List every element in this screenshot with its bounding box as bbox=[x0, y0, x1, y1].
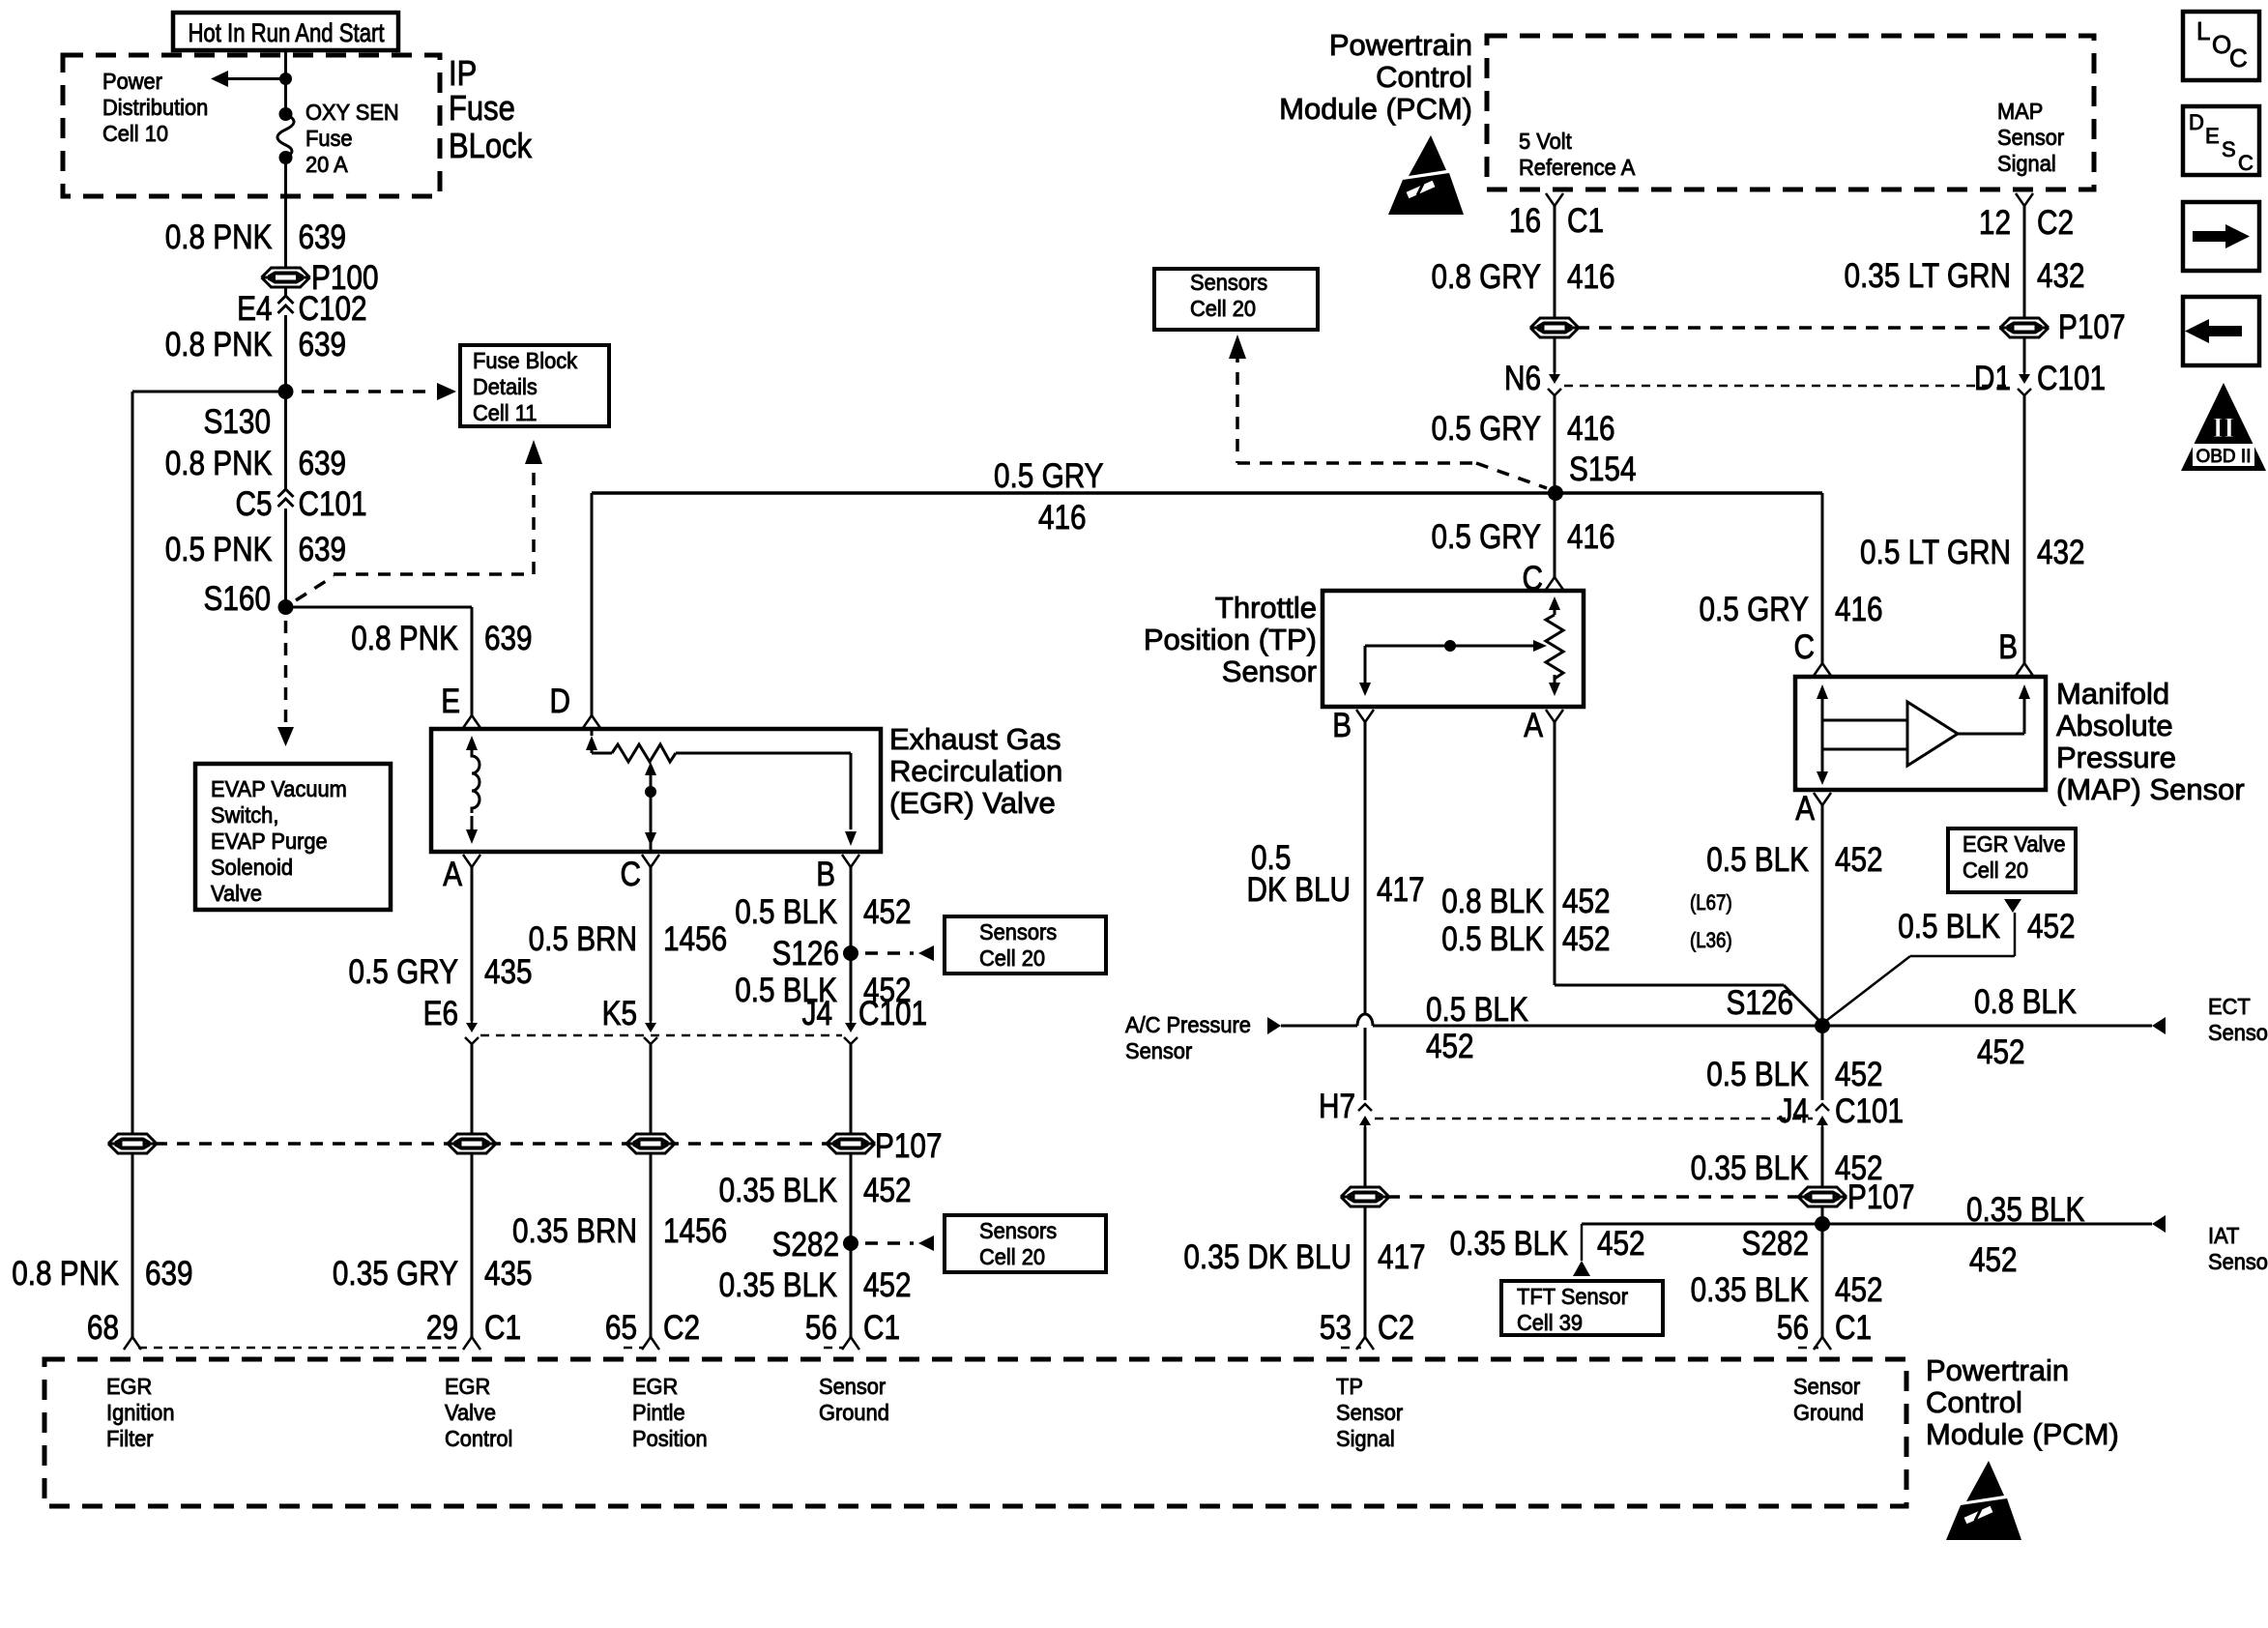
svg-text:Position: Position bbox=[632, 1426, 708, 1451]
svg-text:Fuse: Fuse bbox=[305, 126, 353, 151]
svg-text:452: 452 bbox=[1835, 1271, 1883, 1309]
svg-text:416: 416 bbox=[1567, 410, 1615, 448]
svg-text:452: 452 bbox=[1426, 1028, 1474, 1065]
svg-text:Pintle: Pintle bbox=[632, 1400, 685, 1425]
svg-text:A/C Pressure: A/C Pressure bbox=[1125, 1012, 1251, 1037]
svg-text:C101: C101 bbox=[858, 995, 927, 1032]
svg-text:Throttle: Throttle bbox=[1215, 591, 1317, 625]
svg-text:639: 639 bbox=[299, 218, 347, 256]
svg-text:Sensor: Sensor bbox=[1793, 1374, 1861, 1399]
svg-text:Control: Control bbox=[1926, 1385, 2022, 1419]
svg-text:S160: S160 bbox=[204, 580, 272, 618]
svg-text:D: D bbox=[2189, 110, 2204, 134]
svg-text:435: 435 bbox=[484, 1255, 533, 1293]
svg-text:0.8 GRY: 0.8 GRY bbox=[1432, 258, 1542, 296]
svg-text:C1: C1 bbox=[863, 1309, 900, 1347]
svg-text:S130: S130 bbox=[204, 403, 272, 441]
svg-text:TP: TP bbox=[1336, 1374, 1363, 1399]
svg-text:EGR: EGR bbox=[445, 1374, 490, 1399]
svg-text:0.35 LT GRN: 0.35 LT GRN bbox=[1845, 257, 2012, 295]
svg-text:Distribution: Distribution bbox=[102, 95, 208, 120]
svg-text:MAP: MAP bbox=[1997, 99, 2043, 124]
svg-text:452: 452 bbox=[1977, 1033, 2025, 1071]
svg-text:II: II bbox=[2212, 412, 2234, 444]
svg-text:A: A bbox=[1795, 790, 1815, 828]
svg-text:Sensors: Sensors bbox=[1190, 270, 1267, 295]
svg-text:435: 435 bbox=[484, 953, 533, 991]
svg-text:Sensor: Sensor bbox=[1125, 1038, 1193, 1063]
svg-text:P107: P107 bbox=[875, 1127, 943, 1165]
svg-text:IP: IP bbox=[449, 53, 477, 93]
svg-text:C102: C102 bbox=[299, 290, 367, 328]
svg-text:Cell 20: Cell 20 bbox=[1963, 858, 2028, 883]
svg-text:(EGR) Valve: (EGR) Valve bbox=[889, 786, 1056, 820]
svg-text:C101: C101 bbox=[2037, 360, 2106, 397]
svg-text:B: B bbox=[1998, 628, 2018, 666]
svg-text:Valve: Valve bbox=[445, 1400, 496, 1425]
svg-text:C: C bbox=[1794, 628, 1816, 666]
svg-text:(L67): (L67) bbox=[1690, 890, 1732, 915]
svg-text:0.5 GRY: 0.5 GRY bbox=[1700, 591, 1810, 628]
svg-text:C1: C1 bbox=[1567, 202, 1604, 240]
svg-text:C2: C2 bbox=[2037, 204, 2074, 242]
svg-text:Filter: Filter bbox=[106, 1426, 154, 1451]
svg-text:639: 639 bbox=[299, 445, 347, 482]
svg-text:E4: E4 bbox=[237, 290, 272, 328]
svg-text:452: 452 bbox=[1562, 883, 1611, 920]
svg-text:H7: H7 bbox=[1319, 1088, 1355, 1125]
svg-text:0.5 BLK: 0.5 BLK bbox=[1706, 1056, 1809, 1093]
svg-text:0.35 GRY: 0.35 GRY bbox=[333, 1255, 458, 1293]
svg-text:639: 639 bbox=[484, 620, 533, 657]
svg-text:Ground: Ground bbox=[819, 1400, 889, 1425]
svg-text:Hot In Run And Start: Hot In Run And Start bbox=[188, 18, 385, 47]
svg-text:Signal: Signal bbox=[1336, 1426, 1395, 1451]
svg-text:416: 416 bbox=[1835, 591, 1883, 628]
svg-text:0.35 BLK: 0.35 BLK bbox=[1691, 1149, 1809, 1187]
svg-text:OBD II: OBD II bbox=[2195, 447, 2251, 467]
svg-text:D1: D1 bbox=[1974, 360, 2011, 397]
svg-text:Control: Control bbox=[1376, 60, 1472, 94]
svg-text:Sensor: Sensor bbox=[1997, 125, 2065, 150]
svg-text:Powertrain: Powertrain bbox=[1926, 1353, 2069, 1387]
svg-text:416: 416 bbox=[1567, 258, 1615, 296]
svg-text:452: 452 bbox=[1562, 920, 1611, 958]
svg-text:S282: S282 bbox=[1742, 1225, 1810, 1263]
svg-text:J4: J4 bbox=[1779, 1092, 1809, 1130]
svg-text:K5: K5 bbox=[602, 995, 637, 1032]
svg-text:0.5 PNK: 0.5 PNK bbox=[165, 531, 273, 568]
svg-text:0.5 LT GRN: 0.5 LT GRN bbox=[1860, 534, 2011, 571]
svg-text:5 Volt: 5 Volt bbox=[1519, 129, 1572, 154]
svg-text:Sensors: Sensors bbox=[979, 919, 1057, 945]
svg-text:Solenoid: Solenoid bbox=[211, 855, 293, 880]
svg-text:452: 452 bbox=[2027, 908, 2076, 945]
svg-text:Absolute: Absolute bbox=[2056, 709, 2173, 742]
svg-text:TFT Sensor: TFT Sensor bbox=[1517, 1284, 1628, 1309]
svg-text:0.35 DK BLU: 0.35 DK BLU bbox=[1183, 1238, 1352, 1276]
svg-text:C: C bbox=[621, 856, 642, 893]
svg-text:452: 452 bbox=[863, 1266, 912, 1304]
svg-text:Recirculation: Recirculation bbox=[889, 754, 1062, 788]
svg-text:Cell 20: Cell 20 bbox=[979, 945, 1045, 971]
svg-text:Switch,: Switch, bbox=[211, 802, 278, 828]
svg-text:D: D bbox=[550, 683, 571, 720]
svg-text:432: 432 bbox=[2037, 257, 2085, 295]
svg-text:Powertrain: Powertrain bbox=[1329, 28, 1472, 62]
svg-text:1456: 1456 bbox=[663, 920, 727, 958]
svg-text:452: 452 bbox=[1835, 1056, 1883, 1093]
svg-text:(MAP) Sensor: (MAP) Sensor bbox=[2056, 772, 2245, 806]
svg-text:Sensor: Sensor bbox=[2208, 1020, 2268, 1045]
svg-text:B: B bbox=[1332, 707, 1352, 744]
svg-text:IAT: IAT bbox=[2208, 1223, 2239, 1248]
svg-text:Sensor: Sensor bbox=[2208, 1249, 2268, 1274]
svg-text:0.8 BLK: 0.8 BLK bbox=[1441, 883, 1544, 920]
svg-text:S: S bbox=[2222, 137, 2236, 161]
svg-text:Pressure: Pressure bbox=[2056, 741, 2176, 774]
svg-text:J4: J4 bbox=[802, 995, 832, 1032]
svg-text:OXY SEN: OXY SEN bbox=[305, 100, 399, 125]
svg-text:Manifold: Manifold bbox=[2056, 677, 2169, 711]
svg-text:C5: C5 bbox=[236, 485, 273, 523]
svg-text:0.8 PNK: 0.8 PNK bbox=[165, 218, 273, 256]
svg-text:S126: S126 bbox=[1727, 984, 1794, 1022]
svg-text:EGR Valve: EGR Valve bbox=[1963, 831, 2066, 857]
svg-text:Details: Details bbox=[473, 374, 538, 399]
svg-text:Reference A: Reference A bbox=[1519, 155, 1636, 180]
svg-text:0.8 PNK: 0.8 PNK bbox=[165, 445, 273, 482]
svg-text:0.5 BRN: 0.5 BRN bbox=[529, 920, 637, 958]
svg-text:C101: C101 bbox=[299, 485, 367, 523]
svg-text:Sensor: Sensor bbox=[819, 1374, 887, 1399]
svg-text:ECT: ECT bbox=[2208, 994, 2251, 1019]
svg-text:639: 639 bbox=[299, 326, 347, 363]
svg-text:Module (PCM): Module (PCM) bbox=[1279, 92, 1472, 126]
svg-text:E: E bbox=[441, 683, 460, 720]
svg-text:Power: Power bbox=[102, 69, 162, 94]
svg-text:Exhaust Gas: Exhaust Gas bbox=[889, 722, 1061, 756]
svg-text:Cell 20: Cell 20 bbox=[979, 1244, 1045, 1269]
svg-text:EGR: EGR bbox=[106, 1374, 152, 1399]
svg-text:56: 56 bbox=[805, 1309, 837, 1347]
svg-text:0.8 BLK: 0.8 BLK bbox=[1974, 983, 2077, 1021]
svg-text:639: 639 bbox=[299, 531, 347, 568]
svg-text:417: 417 bbox=[1377, 871, 1425, 909]
svg-text:0.5 BLK: 0.5 BLK bbox=[1426, 991, 1528, 1029]
svg-text:65: 65 bbox=[605, 1309, 637, 1347]
svg-text:A: A bbox=[1524, 707, 1543, 744]
svg-text:0.35 BLK: 0.35 BLK bbox=[1450, 1225, 1568, 1263]
svg-text:0.5 BLK: 0.5 BLK bbox=[1706, 841, 1809, 879]
svg-text:432: 432 bbox=[2037, 534, 2085, 571]
svg-text:Ground: Ground bbox=[1793, 1400, 1864, 1425]
svg-text:P107: P107 bbox=[2058, 308, 2126, 346]
svg-text:A: A bbox=[443, 856, 462, 893]
svg-text:0.5 BLK: 0.5 BLK bbox=[735, 893, 837, 931]
svg-text:0.5 GRY: 0.5 GRY bbox=[349, 953, 459, 991]
svg-text:Module (PCM): Module (PCM) bbox=[1926, 1417, 2119, 1451]
svg-text:S126: S126 bbox=[772, 935, 840, 973]
svg-text:452: 452 bbox=[1969, 1241, 2018, 1279]
svg-text:BLock: BLock bbox=[449, 126, 533, 165]
svg-text:0.5 GRY: 0.5 GRY bbox=[1432, 410, 1542, 448]
svg-text:452: 452 bbox=[863, 1172, 912, 1209]
svg-text:N6: N6 bbox=[1504, 360, 1541, 397]
svg-text:Sensors: Sensors bbox=[979, 1218, 1057, 1243]
svg-text:56: 56 bbox=[1777, 1309, 1809, 1347]
svg-text:E6: E6 bbox=[423, 995, 458, 1032]
svg-text:Position (TP): Position (TP) bbox=[1144, 623, 1317, 656]
svg-text:0.35 BLK: 0.35 BLK bbox=[1966, 1191, 2084, 1229]
svg-text:0.35 BLK: 0.35 BLK bbox=[1691, 1271, 1809, 1309]
svg-text:C101: C101 bbox=[1835, 1092, 1904, 1130]
svg-text:20 A: 20 A bbox=[305, 152, 348, 177]
svg-text:452: 452 bbox=[863, 893, 912, 931]
svg-text:Valve: Valve bbox=[211, 881, 262, 906]
svg-text:(L36): (L36) bbox=[1690, 928, 1732, 952]
svg-text:Cell 39: Cell 39 bbox=[1517, 1310, 1583, 1335]
svg-text:C1: C1 bbox=[1835, 1309, 1872, 1347]
svg-text:Fuse: Fuse bbox=[449, 88, 515, 128]
svg-text:53: 53 bbox=[1320, 1309, 1352, 1347]
svg-text:Sensor: Sensor bbox=[1222, 654, 1317, 688]
svg-text:Control: Control bbox=[445, 1426, 512, 1451]
svg-text:C: C bbox=[2229, 44, 2248, 73]
svg-text:Cell 11: Cell 11 bbox=[473, 400, 537, 425]
svg-text:416: 416 bbox=[1567, 518, 1615, 556]
svg-text:S154: S154 bbox=[1569, 451, 1637, 488]
svg-text:0.8 PNK: 0.8 PNK bbox=[12, 1255, 119, 1293]
svg-text:DK BLU: DK BLU bbox=[1247, 871, 1352, 909]
svg-text:Fuse Block: Fuse Block bbox=[473, 348, 578, 373]
svg-text:452: 452 bbox=[1835, 841, 1883, 879]
svg-text:0.35 BLK: 0.35 BLK bbox=[719, 1266, 837, 1304]
svg-text:0.8 PNK: 0.8 PNK bbox=[351, 620, 458, 657]
svg-text:0.35 BRN: 0.35 BRN bbox=[512, 1212, 637, 1250]
svg-text:S282: S282 bbox=[772, 1226, 840, 1264]
svg-text:Cell 20: Cell 20 bbox=[1190, 296, 1256, 321]
svg-text:EVAP Purge: EVAP Purge bbox=[211, 829, 328, 854]
svg-text:EGR: EGR bbox=[632, 1374, 678, 1399]
svg-text:Ignition: Ignition bbox=[106, 1400, 175, 1425]
svg-text:452: 452 bbox=[1597, 1225, 1645, 1263]
svg-text:452: 452 bbox=[1835, 1149, 1883, 1187]
svg-text:0.35 BLK: 0.35 BLK bbox=[719, 1172, 837, 1209]
svg-text:12: 12 bbox=[1979, 204, 2011, 242]
svg-text:0.5 GRY: 0.5 GRY bbox=[994, 457, 1104, 495]
svg-text:0.5 BLK: 0.5 BLK bbox=[1441, 920, 1544, 958]
svg-text:B: B bbox=[816, 856, 835, 893]
svg-text:C2: C2 bbox=[1378, 1309, 1414, 1347]
svg-text:0.8 PNK: 0.8 PNK bbox=[165, 326, 273, 363]
svg-text:Cell 10: Cell 10 bbox=[102, 121, 168, 146]
svg-text:C1: C1 bbox=[484, 1309, 521, 1347]
svg-text:416: 416 bbox=[1038, 499, 1087, 537]
svg-text:C2: C2 bbox=[663, 1309, 700, 1347]
svg-text:0.5 GRY: 0.5 GRY bbox=[1432, 518, 1542, 556]
svg-text:EVAP Vacuum: EVAP Vacuum bbox=[211, 776, 347, 801]
svg-text:68: 68 bbox=[87, 1309, 119, 1347]
svg-text:639: 639 bbox=[145, 1255, 193, 1293]
svg-text:E: E bbox=[2205, 124, 2220, 148]
svg-text:16: 16 bbox=[1509, 202, 1541, 240]
svg-text:C: C bbox=[2238, 151, 2253, 175]
svg-text:Sensor: Sensor bbox=[1336, 1400, 1404, 1425]
svg-text:1456: 1456 bbox=[663, 1212, 727, 1250]
svg-text:Signal: Signal bbox=[1997, 151, 2056, 176]
svg-text:29: 29 bbox=[426, 1309, 458, 1347]
svg-text:417: 417 bbox=[1378, 1238, 1426, 1276]
svg-text:0.5 BLK: 0.5 BLK bbox=[1898, 908, 2000, 945]
svg-text:L: L bbox=[2196, 16, 2210, 45]
